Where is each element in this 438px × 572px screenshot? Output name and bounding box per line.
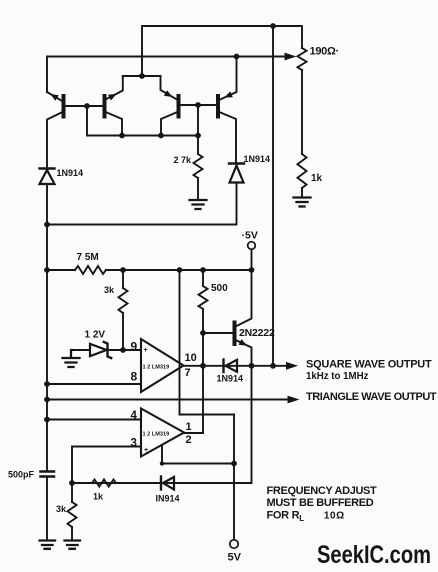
svg-text:1N914: 1N914 [217, 374, 244, 384]
node mid rail left [44, 267, 50, 273]
svg-text:10: 10 [185, 352, 197, 364]
resistor 500 [199, 286, 208, 309]
transistor Q1 emitter [47, 92, 62, 101]
node top-rail junction [270, 23, 276, 29]
svg-text:500: 500 [211, 283, 228, 294]
svg-text:SeekIC.com: SeekIC.com [317, 541, 431, 569]
terminal 5V bottom [230, 540, 238, 548]
svg-text:+: + [144, 347, 148, 354]
node rail B / Q4 emitter junction [234, 54, 240, 60]
transistor Q4 emitter [218, 57, 237, 101]
svg-text:1k: 1k [93, 492, 104, 502]
resistor 2.7k [194, 154, 203, 178]
transistor Q4 collector [218, 112, 236, 164]
node mid rail +5V [249, 267, 255, 273]
svg-text:2N2222: 2N2222 [239, 327, 275, 339]
svg-text:1 2V: 1 2V [85, 330, 106, 341]
resistor 1k (top right) [298, 154, 307, 188]
wire 2.7k to ground [197, 178, 199, 200]
capacitor 500pF plates [41, 472, 55, 477]
resistor 7.5M [75, 266, 106, 274]
transistor Q1 base bar [62, 96, 66, 117]
svg-text:2 7k: 2 7k [174, 155, 193, 165]
svg-text:1 2 LM319: 1 2 LM319 [143, 365, 170, 371]
wire diode down and rail to left [47, 183, 237, 225]
wire 5V riser [233, 415, 235, 540]
wire supply drop from mid rail to 414 jog [179, 270, 181, 415]
wire emitter tie bar Q2-Q3 [123, 75, 161, 77]
svg-text:1k: 1k [311, 173, 323, 184]
node triangle line left bus [44, 397, 50, 403]
transistor Q1 collector [47, 112, 64, 169]
wire Q3 base to Q4 base [179, 104, 219, 106]
ground (zener) [63, 350, 80, 367]
potentiometer 190ohm [298, 48, 307, 70]
wire pin 4 [47, 419, 141, 421]
wire rail B to pot wiper [47, 57, 286, 93]
svg-text:+: + [144, 447, 148, 454]
wire 1k to diode [116, 482, 161, 484]
terminal +5V [248, 242, 256, 250]
wire mid rail 270 [47, 269, 75, 271]
node tie bar center [139, 73, 145, 79]
transistor Q5 collector [235, 270, 252, 327]
node bus junction Q3 collector [158, 133, 164, 139]
node Q3-Q4 base junction [195, 102, 201, 108]
op-amp U2 LM319 triangle [141, 409, 184, 457]
ground (under 500pF) [40, 541, 56, 549]
wire Q1 base to Q2 base [64, 105, 105, 107]
transistor Q4 base bar [216, 96, 220, 117]
wire zener to pin 9 [108, 349, 142, 351]
wire square-line to bottom feedback vertical [72, 366, 252, 483]
svg-text:3k: 3k [104, 285, 115, 295]
transistor Q3 collector [161, 112, 179, 136]
wire 3k to pin9 line [122, 313, 124, 350]
wire mid rail continues [106, 269, 252, 271]
wire square arrowhead [286, 362, 298, 370]
resistor 3k (middle) [119, 288, 128, 313]
wire cap to ground [46, 477, 48, 541]
wire 3k branch [122, 270, 124, 288]
wire pin 3 [72, 447, 141, 484]
wire pot wiper arrowhead [285, 53, 297, 61]
svg-text:7 5M: 7 5M [77, 252, 99, 263]
diode 1.2V zener [90, 344, 107, 356]
wire pin 8 [47, 383, 141, 385]
wire +5V terminal to rail [251, 249, 253, 270]
node pin3 1k junction [69, 480, 75, 486]
wire 1k bottom left stub [72, 482, 92, 484]
wire 3k bottom branch [71, 483, 73, 502]
wire left diode to lower-left bus [46, 184, 48, 471]
wire ground to zener [71, 349, 90, 351]
svg-text:1kHz to 1MHz: 1kHz to 1MHz [306, 371, 369, 382]
node pin9 junction [120, 347, 126, 353]
node pin2 stub corner [160, 461, 164, 465]
resistor 3k (bottom) [68, 502, 77, 527]
svg-text:4: 4 [131, 410, 138, 422]
node mid rail supply drop [177, 267, 183, 273]
node pin4 left bus [44, 417, 50, 423]
resistor 1k (bottom) [92, 480, 116, 487]
wire lower bus [87, 106, 198, 136]
wire U1 output square line [184, 365, 287, 367]
transistor Q3 emitter [161, 76, 179, 101]
node 5V riser pin2 junction [231, 461, 237, 467]
node mid rail 3k [120, 267, 126, 273]
transistor Q5 emitter [235, 340, 252, 366]
wire triangle arrowhead [288, 396, 300, 404]
transistor Q5 2N2222 base bar [233, 323, 237, 345]
ground (under 3k) [65, 541, 81, 549]
wire base junction down to bus [197, 105, 199, 136]
wire top rail [142, 26, 302, 76]
ground (under 2.7k) [190, 200, 207, 209]
wire 414 jog horizontal [180, 414, 235, 416]
svg-text:1 2 LM319: 1 2 LM319 [143, 432, 170, 438]
node square line long vertical junction [270, 363, 276, 369]
diode 1N914 (below Q4) [229, 162, 244, 164]
diode 1N914 (square line) [222, 360, 224, 373]
svg-text:IN914: IN914 [156, 494, 180, 504]
svg-text:1: 1 [186, 421, 192, 433]
wire 3k to ground [71, 527, 73, 540]
transistor Q3 base bar [177, 96, 181, 117]
ground (under 1k top right) [294, 198, 311, 207]
svg-text:·5V: ·5V [242, 230, 258, 242]
svg-text:500pF: 500pF [8, 470, 35, 480]
wire 500 down through base junction to output and op2 [202, 309, 204, 433]
transistor Q2 emitter [105, 76, 123, 100]
node pin8 left bus [44, 381, 50, 387]
wire triangle wave line [47, 399, 288, 401]
svg-text:5V: 5V [228, 552, 242, 564]
svg-text:190Ω·: 190Ω· [310, 46, 339, 58]
transistor Q2 base bar [103, 96, 107, 117]
diode 1N914 (left) [40, 167, 55, 169]
svg-text:3k: 3k [56, 504, 67, 514]
node square line Q5 emitter junction [249, 363, 255, 369]
svg-text:8: 8 [131, 370, 138, 384]
wire diode to feedback vertical [174, 482, 252, 484]
node bus end 2.7k junction [195, 133, 201, 139]
svg-text:7: 7 [185, 367, 191, 379]
svg-text:1N914: 1N914 [57, 168, 84, 178]
transistor Q2 collector [105, 112, 123, 136]
wire pot bottom to 1k [301, 70, 303, 154]
op-amp U1 LM319 triangle [141, 339, 184, 392]
wire pin 2 stub [162, 445, 234, 464]
wire 500 vertical branch [202, 270, 204, 286]
wire long vertical from top rail to square wave line [272, 26, 274, 366]
svg-text:MUST BE BUFFERED: MUST BE BUFFERED [267, 497, 374, 509]
diode 1N914 (bottom) [160, 477, 162, 490]
svg-text:3: 3 [131, 437, 137, 449]
wire bus to 2.7k [197, 136, 199, 155]
node Q1-Q2 base junction [84, 103, 90, 109]
svg-text:2: 2 [186, 434, 192, 446]
svg-text:SQUARE WAVE OUTPUT: SQUARE WAVE OUTPUT [306, 359, 432, 371]
svg-text:FREQUENCY ADJUST: FREQUENCY ADJUST [267, 485, 378, 497]
node Q5 base junction [200, 330, 206, 336]
wire U2 output to riser [184, 432, 203, 434]
svg-text:TRIANGLE WAVE OUTPUT: TRIANGLE WAVE OUTPUT [306, 391, 437, 403]
svg-text:9: 9 [131, 340, 138, 354]
node square line 500 junction [200, 363, 206, 369]
wire Q5 base [203, 332, 233, 334]
wire 1k to ground [301, 188, 303, 198]
node bus junction Q2 collector [119, 133, 125, 139]
node left bus at 224 rail [44, 222, 50, 228]
node mid rail 500 [200, 267, 206, 273]
svg-text:1N914: 1N914 [244, 154, 271, 164]
